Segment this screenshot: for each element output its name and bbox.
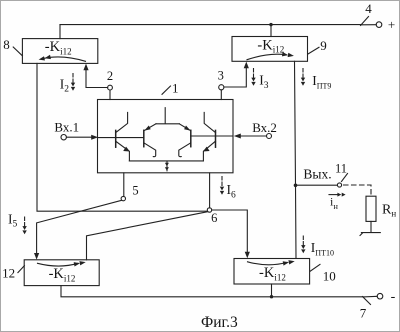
junction dot output tap — [294, 184, 298, 188]
wire node3 to block 1 — [220, 90, 222, 100]
input Vx.1 terminal — [61, 135, 66, 140]
current tail squiggle — [165, 161, 169, 171]
U10 gain arrow — [248, 259, 296, 266]
svg-text:4: 4 — [365, 1, 372, 16]
wire negative supply rail — [61, 286, 377, 297]
callout tick 1 — [162, 86, 171, 94]
node 6 — [207, 208, 211, 212]
wire node 3 to U9 (up arrow) — [224, 62, 249, 87]
svg-text:Фиг.3: Фиг.3 — [201, 314, 238, 331]
wire U8 top pin — [59, 25, 61, 39]
callout tick 8 — [13, 47, 22, 56]
wire node6 diagonal to U12 right pin — [87, 212, 208, 260]
svg-text:Вх.2: Вх.2 — [252, 120, 277, 135]
ground — [360, 233, 380, 236]
input Vx.2 terminal — [267, 134, 272, 139]
wire center current source stub — [156, 108, 179, 124]
svg-text:5: 5 — [132, 184, 138, 198]
U12 gain arrow — [38, 260, 87, 267]
transistor VT3 (right inner pnp) — [190, 130, 192, 146]
junction dot on rail at U9 pin — [269, 23, 272, 26]
node 2 — [108, 85, 113, 90]
node 3 — [219, 85, 224, 90]
transistor VT1 (left outer npn) — [115, 130, 117, 147]
terminal 4 — [361, 17, 382, 28]
wire U9 to output column — [295, 61, 297, 258]
svg-text:-: - — [391, 290, 396, 305]
terminal 7 — [363, 293, 383, 304]
current arrow I3 — [251, 69, 255, 86]
callout tick 11 — [342, 174, 348, 182]
node 11 output terminal — [337, 183, 341, 187]
input stage block 1 — [98, 100, 234, 173]
svg-text:8: 8 — [3, 37, 10, 52]
svg-text:10: 10 — [323, 268, 336, 283]
U8 gain arrow — [38, 55, 85, 62]
transistor VT2 (left inner pnp) — [143, 130, 145, 146]
wire output to node 11 — [296, 184, 338, 186]
junction dot U10 bottom — [270, 295, 273, 298]
amplifier U10 -K_i12 — [234, 259, 310, 285]
svg-text:12: 12 — [2, 266, 15, 281]
svg-text:6: 6 — [211, 211, 217, 225]
amplifier U9 -K_i12 — [232, 37, 308, 62]
callout tick 12 — [18, 266, 25, 273]
node 5 — [121, 196, 125, 200]
wire Vx.1 arrow into block 1 — [67, 135, 99, 140]
svg-text:Вых.: Вых. — [303, 167, 331, 182]
wire common emitter rail inside block 1 — [129, 160, 203, 162]
wire node 2 to U8 (up arrow) — [83, 64, 107, 88]
svg-text:9: 9 — [320, 38, 327, 53]
wire node6 to U10 (arrow) — [212, 210, 250, 258]
amplifier U8 -K_i12 — [22, 39, 97, 64]
current arrow I2 — [71, 74, 75, 91]
svg-text:3: 3 — [218, 69, 224, 83]
resistor Rn — [366, 196, 376, 221]
amplifier U12 -K_i12 — [24, 260, 99, 286]
wire U8 bottom to node 6 (left long wire) — [37, 63, 207, 211]
current arrow i_n — [329, 193, 346, 197]
svg-text:1: 1 — [172, 81, 179, 96]
wire resistor to ground — [370, 221, 372, 232]
U9 gain arrow — [247, 52, 294, 60]
callout tick 10 — [310, 264, 320, 271]
current arrow I6 — [220, 177, 224, 195]
wire block1 right bottom pin to node 6 — [209, 173, 211, 208]
callout tick 9 — [308, 47, 319, 54]
svg-text:11: 11 — [335, 161, 347, 175]
wire node5 diagonal to U12 (arrow) — [34, 200, 122, 259]
wire block1 left bottom pin to node 5 — [123, 173, 125, 197]
wire Vx.2 arrow into block 1 — [234, 134, 267, 139]
transistor VT4 (right outer npn) — [215, 130, 217, 147]
svg-text:7: 7 — [360, 306, 367, 321]
svg-text:2: 2 — [107, 69, 113, 83]
current arrow I_PT9 — [301, 69, 305, 86]
current arrow I5 — [22, 217, 26, 234]
wire node2 to block 1 — [109, 90, 111, 99]
wire positive supply rail — [60, 24, 376, 26]
wire U9 top pin — [270, 25, 272, 37]
current arrow I_PT10 — [301, 236, 305, 253]
svg-text:Вх.1: Вх.1 — [54, 119, 79, 134]
svg-text:+: + — [388, 17, 395, 32]
wire U10 bottom pin — [271, 284, 273, 297]
wire dashed to load — [344, 185, 372, 196]
